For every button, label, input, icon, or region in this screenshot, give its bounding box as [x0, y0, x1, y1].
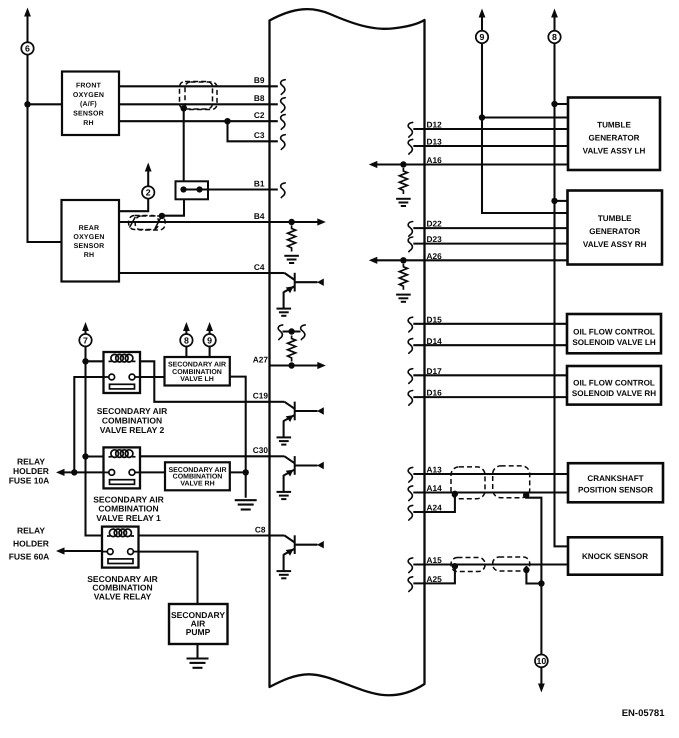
svg-text:OIL FLOW CONTROL: OIL FLOW CONTROL	[573, 327, 655, 336]
shield links around B9/B8	[180, 82, 218, 110]
wire A14	[413, 491, 568, 493]
junction A26 / resistor	[400, 257, 406, 263]
svg-text:C19: C19	[253, 391, 269, 401]
relay 2 caption	[97, 406, 168, 435]
resistor at A26	[399, 264, 407, 290]
svg-text:A15: A15	[427, 555, 443, 565]
shield links on A15	[451, 557, 530, 572]
svg-text:D23: D23	[427, 234, 443, 244]
node 2 arrow	[145, 163, 152, 187]
junction A24/A14	[452, 491, 458, 497]
node 6 circle	[21, 42, 33, 54]
wire relay 2 left terminal to fuse line	[74, 377, 103, 472]
svg-text:POSITION SENSOR: POSITION SENSOR	[578, 486, 653, 495]
tumble generator valve assy RH box	[568, 191, 663, 265]
wire from node 6 down to rear oxygen sensor	[28, 54, 62, 242]
wire relay 3 right terminal to pump	[139, 552, 198, 604]
wire D12	[413, 128, 568, 130]
svg-text:VALVE ASSY LH: VALVE ASSY LH	[583, 146, 646, 155]
wire relay 1 right terminal to valve RH	[140, 471, 165, 473]
wire relay 2 coil to C19	[140, 361, 270, 402]
node 9 arrow (right top)	[479, 9, 486, 32]
junction 6-line / front sensor	[24, 101, 30, 107]
node 9 circle (left)	[203, 334, 215, 346]
node 2 circle	[142, 186, 154, 198]
svg-text:D17: D17	[427, 366, 443, 376]
transistor at C4	[270, 273, 324, 316]
wire valve RH to ground junction	[230, 471, 246, 473]
wire C3	[228, 121, 278, 141]
svg-text:D13: D13	[427, 137, 443, 147]
node 7 arrow	[82, 322, 89, 334]
secondary air combination valve RH box	[165, 462, 230, 490]
node 10 down arrow	[538, 667, 545, 693]
junction connector pair / resistor	[288, 328, 294, 334]
svg-text:SECONDARY AIR: SECONDARY AIR	[97, 406, 168, 416]
wire D13	[413, 145, 568, 147]
wire A27 with arrow	[270, 362, 326, 369]
shield drain junction on B9/B8 link	[181, 105, 187, 111]
junction valves ground	[243, 469, 249, 475]
wire D17	[413, 374, 567, 376]
wire C4	[119, 272, 285, 274]
svg-text:A24: A24	[427, 503, 443, 513]
knock shield drain junction	[523, 567, 529, 573]
relay 1	[104, 447, 141, 488]
svg-text:7: 7	[83, 335, 88, 345]
wire front sensor left pin	[28, 103, 63, 105]
svg-text:9: 9	[207, 335, 212, 345]
svg-text:VALVE RELAY: VALVE RELAY	[94, 591, 152, 601]
svg-text:C30: C30	[253, 445, 269, 455]
wire node 8 down to knock sensor	[555, 43, 569, 547]
junction 8-line / tumble LH	[551, 101, 557, 107]
node 8 arrow (right top)	[551, 9, 558, 32]
svg-text:FUSE 10A: FUSE 10A	[9, 476, 50, 486]
junction C2/C3	[224, 118, 230, 124]
svg-text:SENSOR: SENSOR	[73, 111, 104, 118]
svg-text:6: 6	[25, 44, 30, 54]
svg-text:TUMBLE: TUMBLE	[598, 214, 632, 223]
wire C2	[119, 120, 278, 122]
ground at A26 resistor	[396, 295, 411, 302]
transistor at C19	[270, 402, 324, 445]
svg-text:FRONT: FRONT	[76, 83, 102, 90]
ECM bus band outline	[270, 9, 425, 695]
left pin labels	[253, 75, 269, 534]
svg-text:VALVE RELAY 1: VALVE RELAY 1	[96, 513, 161, 523]
svg-text:CRANKSHAFT: CRANKSHAFT	[587, 474, 643, 483]
junction to node 10 line	[538, 580, 544, 586]
arrow to relay holder fuse 60A	[56, 547, 102, 554]
svg-text:B4: B4	[254, 211, 265, 221]
svg-text:VALVE ASSY RH: VALVE ASSY RH	[583, 240, 647, 249]
relay 1 caption	[93, 494, 164, 523]
svg-text:SECONDARY AIR: SECONDARY AIR	[168, 362, 226, 369]
svg-text:C8: C8	[255, 524, 266, 534]
svg-text:RELAY: RELAY	[17, 525, 45, 535]
wire B4	[119, 221, 292, 223]
svg-text:RH: RH	[83, 120, 94, 127]
wire relay 3 coil to C8	[139, 534, 270, 536]
node 8 circle (right top)	[548, 31, 560, 43]
wire node 9 down to tumble RH	[482, 43, 568, 213]
wire pump to ground	[196, 644, 198, 658]
secondary air combination valve LH box	[165, 357, 230, 386]
svg-text:(A/F): (A/F)	[80, 100, 97, 108]
svg-text:VALVE LH: VALVE LH	[180, 376, 214, 383]
svg-text:10: 10	[537, 656, 547, 666]
ground at A16 resistor	[396, 199, 411, 206]
wire to relay 2 coil	[86, 360, 104, 362]
junction fuse 10A line	[71, 469, 77, 475]
joint connector box	[176, 181, 209, 199]
wire A25 to A15	[413, 565, 455, 584]
wire A24 to A14	[413, 493, 455, 513]
svg-text:PUMP: PUMP	[186, 627, 211, 637]
svg-text:8: 8	[552, 32, 557, 42]
transistor at C30	[270, 456, 324, 499]
node 9 arrow (left)	[206, 322, 213, 334]
svg-text:HOLDER: HOLDER	[13, 538, 49, 548]
wire D16	[413, 396, 567, 398]
right pin labels	[427, 120, 443, 584]
wire 8-line to tumble LH	[555, 103, 569, 105]
junction A25/A15	[452, 563, 458, 569]
svg-text:KNOCK SENSOR: KNOCK SENSOR	[582, 552, 648, 561]
svg-text:RELAY: RELAY	[17, 457, 45, 467]
junction B1 left	[180, 186, 186, 192]
wire A13	[413, 473, 568, 475]
relay 2	[104, 352, 141, 393]
junction A16 / resistor	[400, 161, 406, 167]
relay 3 (secondary air combination valve relay)	[102, 527, 139, 568]
svg-text:GENERATOR: GENERATOR	[589, 227, 640, 236]
wire B1	[184, 188, 278, 190]
svg-text:VALVE RELAY 2: VALVE RELAY 2	[100, 425, 165, 435]
right connector squiggles	[408, 122, 413, 591]
svg-text:8: 8	[184, 335, 189, 345]
svg-text:D15: D15	[427, 314, 443, 324]
junction 8-line / tumble RH	[551, 198, 557, 204]
svg-text:D16: D16	[427, 388, 443, 398]
svg-text:OIL FLOW CONTROL: OIL FLOW CONTROL	[573, 378, 655, 387]
ground at B4 resistor	[284, 256, 299, 263]
svg-text:COMBINATION: COMBINATION	[172, 369, 222, 376]
node 7 circle	[79, 334, 91, 346]
oil flow control solenoid valve LH box	[567, 314, 661, 353]
ground for valves	[235, 500, 257, 509]
rear oxygen sensor box	[62, 200, 120, 282]
svg-text:C3: C3	[254, 130, 265, 140]
svg-text:C4: C4	[254, 262, 265, 272]
svg-text:A13: A13	[427, 465, 443, 475]
wire relay 1 coil to C30	[140, 455, 270, 457]
svg-text:9: 9	[480, 32, 485, 42]
wire 9-line to tumble LH	[482, 116, 568, 118]
svg-text:B9: B9	[254, 75, 265, 85]
relay 3 caption	[87, 574, 158, 602]
svg-text:EN-05781: EN-05781	[622, 708, 665, 719]
svg-text:TUMBLE: TUMBLE	[597, 121, 631, 130]
wire to relay 1 coil	[86, 455, 104, 457]
crank shield drain junction	[523, 492, 529, 498]
relay holder fuse 10A label	[9, 457, 50, 486]
wire A15	[413, 563, 568, 565]
front oxygen sensor box	[62, 72, 119, 136]
svg-text:A16: A16	[427, 155, 443, 165]
junction 9-line / tumble LH	[479, 114, 485, 120]
svg-text:A27: A27	[253, 354, 269, 364]
resistor at A16	[399, 168, 407, 194]
wire joint connector to B4 shield	[162, 199, 184, 215]
svg-text:GENERATOR: GENERATOR	[589, 134, 640, 143]
wire valve LH to ground	[230, 377, 246, 498]
left connector squiggles	[281, 80, 286, 198]
svg-text:D12: D12	[427, 120, 443, 130]
node 6 arrow	[24, 8, 31, 43]
svg-text:A14: A14	[427, 483, 443, 493]
svg-text:D22: D22	[427, 219, 443, 229]
junction B4/resistor	[288, 219, 294, 225]
node 8 arrow (left)	[183, 322, 190, 334]
wire knock shield drain down	[526, 566, 541, 584]
node 8 circle (left)	[180, 334, 192, 346]
wire B9	[119, 85, 278, 87]
wire D22	[413, 227, 567, 229]
secondary air pump box	[169, 604, 228, 644]
shield links on A13/A14	[451, 466, 530, 499]
junction 7-line / relay 1 coil	[82, 453, 88, 459]
resistor above A27	[288, 336, 296, 362]
svg-text:VALVE RH: VALVE RH	[180, 481, 214, 488]
junction on B4 shield	[159, 213, 165, 219]
svg-text:COMBINATION: COMBINATION	[102, 416, 162, 426]
svg-text:B8: B8	[254, 93, 265, 103]
arrow to relay holder fuse 10A	[56, 469, 104, 476]
wire node 8 to valve LH box	[185, 346, 187, 357]
wire D23	[413, 243, 567, 245]
wire relay 2 right terminal to valve LH	[140, 376, 165, 378]
svg-text:OXYGEN: OXYGEN	[73, 234, 104, 241]
svg-text:A26: A26	[427, 251, 443, 261]
wire shield drain to joint connector	[183, 108, 185, 181]
wire B8	[119, 103, 278, 105]
svg-text:SOLENOID VALVE RH: SOLENOID VALVE RH	[572, 389, 656, 398]
svg-text:OXYGEN: OXYGEN	[73, 92, 104, 99]
transistor at C8	[270, 535, 324, 578]
oil flow control solenoid valve RH box	[567, 366, 661, 405]
junction A27 / resistor	[288, 362, 294, 368]
svg-text:SOLENOID VALVE LH: SOLENOID VALVE LH	[572, 338, 655, 347]
connector pair above A27	[278, 325, 305, 340]
svg-text:2: 2	[146, 188, 151, 198]
wire A26 with arrow	[369, 257, 568, 264]
junction B1 right	[196, 186, 202, 192]
wire node 10	[540, 584, 542, 656]
svg-text:D14: D14	[427, 336, 443, 346]
svg-text:SENSOR: SENSOR	[74, 243, 105, 250]
crankshaft position sensor box	[568, 463, 663, 502]
wire D14	[413, 344, 567, 346]
svg-text:FUSE 60A: FUSE 60A	[9, 552, 50, 562]
wire node 9 to valve LH box	[209, 346, 211, 357]
wire crank shield drain down	[526, 493, 541, 584]
svg-text:HOLDER: HOLDER	[13, 466, 49, 476]
svg-text:C2: C2	[254, 110, 265, 120]
wire 8-line to tumble RH	[555, 200, 568, 202]
wire A16 with arrow	[369, 161, 568, 168]
svg-text:B1: B1	[254, 178, 265, 188]
wire node 2 to rear oxygen sensor	[119, 198, 148, 211]
svg-text:RH: RH	[84, 252, 95, 259]
shield oval on B4	[129, 216, 166, 231]
wire D15	[413, 323, 567, 325]
wire node 7 down to relay coils	[86, 346, 102, 536]
ground below pump	[187, 659, 209, 668]
relay holder fuse 60A label	[9, 525, 50, 561]
node 10 circle	[535, 655, 548, 668]
arrow B4 continuation	[292, 218, 326, 225]
knock sensor box	[568, 537, 662, 574]
svg-text:A25: A25	[427, 574, 443, 584]
junction 7-line / relay 2 coil	[82, 358, 88, 364]
node 9 circle (right top)	[476, 31, 488, 43]
svg-text:REAR: REAR	[79, 225, 100, 232]
tumble generator valve assy LH box	[568, 98, 660, 171]
resistor at B4	[288, 226, 296, 252]
